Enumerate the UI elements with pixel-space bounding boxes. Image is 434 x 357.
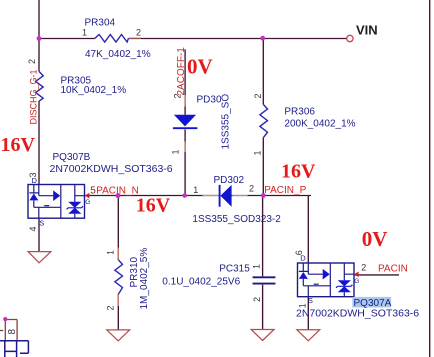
svg-text:D: D [300, 253, 306, 262]
svg-text:PACIN_P: PACIN_P [264, 185, 306, 196]
wire PR310 stubs salmon [117, 248, 119, 307]
transistor PQ307B [28, 185, 85, 219]
svg-text:PR304: PR304 [85, 18, 116, 29]
svg-text:8: 8 [7, 329, 18, 335]
wire top horizontal VIN net [39, 38, 347, 40]
wire PQ307A gate PACIN net [354, 274, 399, 276]
svg-text:16V: 16V [136, 194, 171, 216]
svg-text:PD30: PD30 [197, 95, 222, 106]
capacitor PC315 plates [253, 277, 276, 283]
wire right border line [429, 0, 431, 357]
ground under PQ307A [297, 330, 320, 341]
svg-text:1SS355_SO: 1SS355_SO [221, 94, 232, 150]
svg-text:4: 4 [28, 226, 38, 231]
svg-text:S: S [39, 219, 44, 228]
ground under PC315 [251, 330, 274, 341]
svg-text:16V: 16V [281, 161, 316, 183]
junction node J2 [260, 36, 265, 41]
svg-text:2: 2 [361, 263, 366, 273]
svg-text:1SS355_SOD323-2: 1SS355_SOD323-2 [192, 214, 281, 225]
svg-text:2: 2 [173, 93, 183, 98]
svg-text:1: 1 [252, 264, 262, 269]
wire PR310 branch [117, 196, 119, 331]
wire PR304 pin2 stub salmon [129, 37, 142, 39]
bottom-left text fragment [0, 330, 3, 332]
svg-text:PR306: PR306 [284, 106, 315, 117]
resistor PR304 [95, 35, 129, 43]
svg-text:2N7002KDWH_SOT363-6: 2N7002KDWH_SOT363-6 [50, 163, 173, 175]
junction node J4 [182, 193, 187, 198]
resistor PR306 [260, 105, 268, 138]
svg-text:G: G [85, 199, 90, 206]
svg-text:0V: 0V [187, 54, 213, 78]
svg-text:1: 1 [253, 150, 263, 155]
svg-text:0V: 0V [362, 227, 388, 251]
svg-text:2ACOFF-1: 2ACOFF-1 [176, 47, 187, 96]
svg-text:1M_0402_5%: 1M_0402_5% [139, 248, 150, 310]
svg-text:S: S [308, 296, 313, 305]
svg-text:PC315: PC315 [219, 263, 250, 274]
wire PC315 branch [262, 196, 264, 330]
svg-text:1: 1 [193, 185, 198, 195]
wire 2ACOFF-1 net to PD3L [184, 49, 186, 195]
resistor PR305 [36, 72, 44, 101]
junction node bottom-left dangling [3, 317, 7, 321]
wire bottom-left stub pair [5, 320, 17, 341]
ground under PQ307B [28, 252, 51, 263]
wire PR306 branch [262, 39, 264, 196]
wire PQ307B source to ground [38, 219, 40, 252]
diode PD302 body [219, 185, 221, 207]
junction node J1 [37, 36, 42, 41]
svg-text:1: 1 [171, 149, 181, 154]
svg-text:PACIN: PACIN [378, 263, 408, 274]
wire PD3L stubs salmon [184, 95, 186, 152]
off-page connector VIN circle [347, 35, 353, 41]
svg-text:0.1U_0402_25V6: 0.1U_0402_25V6 [162, 276, 240, 287]
svg-text:16V: 16V [1, 134, 36, 156]
svg-text:10K_0402_1%: 10K_0402_1% [61, 85, 127, 96]
junction node J5 PACIN_P [261, 193, 266, 198]
svg-text:2: 2 [249, 184, 254, 194]
svg-text:1: 1 [106, 250, 116, 255]
svg-text:VIN: VIN [356, 23, 378, 38]
svg-text:PD302: PD302 [214, 175, 245, 186]
svg-text:200K_0402_1%: 200K_0402_1% [284, 118, 355, 129]
svg-text:2: 2 [252, 297, 262, 302]
svg-text:1: 1 [82, 28, 87, 38]
wire PQ307A source to ground [307, 297, 309, 330]
svg-text:PQ307B: PQ307B [53, 152, 91, 163]
label PQ307A highlight [352, 297, 391, 308]
transistor PQ307A [298, 263, 355, 297]
diode PD3L body [174, 115, 196, 127]
svg-text:2: 2 [27, 59, 37, 64]
svg-text:D: D [32, 176, 38, 185]
wire PD302 pin stubs salmon [203, 195, 248, 197]
wire PACIN_P to PQ307A drain [307, 196, 309, 264]
wire node PACIN_N horizontal [85, 195, 311, 197]
svg-text:PACIN_N: PACIN_N [96, 185, 139, 196]
junction node J3 PACIN_N [116, 193, 121, 198]
wire left rail VIN net vertical [38, 0, 40, 185]
transistor PQ307A gate red arrow [354, 272, 359, 278]
ground under PR310 [107, 330, 130, 341]
svg-text:2: 2 [106, 305, 116, 310]
svg-text:2: 2 [253, 93, 263, 98]
resistor PR310 [115, 260, 123, 294]
transistor PQ307B gate red arrow [85, 193, 90, 199]
svg-text:2N7002KDWH_SOT363-6: 2N7002KDWH_SOT363-6 [296, 308, 419, 320]
svg-text:DISCHG_G-1: DISCHG_G-1 [29, 69, 39, 124]
bottom-left partial component box [0, 341, 28, 357]
svg-text:47K_0402_1%: 47K_0402_1% [85, 49, 151, 60]
svg-text:2: 2 [136, 28, 141, 38]
svg-text:G: G [354, 278, 359, 285]
